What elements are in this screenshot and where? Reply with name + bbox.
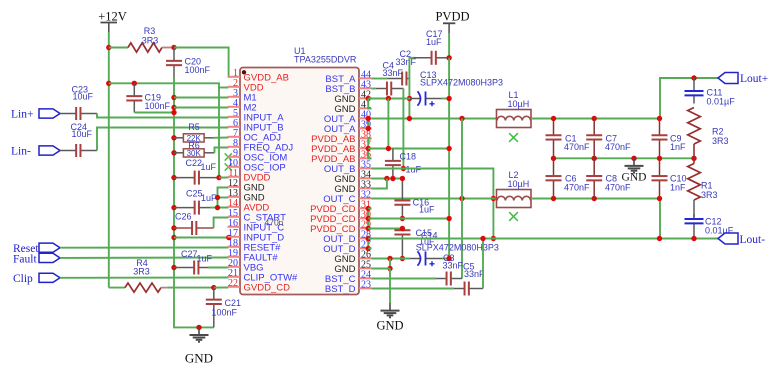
node rail/C13 xyxy=(446,96,451,101)
node bot rail C6 xyxy=(551,196,556,201)
capacitor C19 xyxy=(133,83,135,96)
wire A-C tie xyxy=(461,119,463,279)
no-connect X pin9 OSC_IOM xyxy=(225,153,232,160)
svg-text:C21: C21 xyxy=(225,298,242,308)
capacitor C6 xyxy=(553,158,555,176)
wire pins38-36 tie xyxy=(368,138,371,140)
wire Clip to CLIP_OTW# xyxy=(60,277,229,279)
svg-text:TPA3255DDVR: TPA3255DDVR xyxy=(294,55,357,65)
node C16/PVDD_CD xyxy=(400,216,405,221)
wire C19 to GND bus xyxy=(134,112,174,114)
wire Fault to FAULT# xyxy=(60,257,229,259)
resistor R2 xyxy=(688,108,701,145)
node PVDD top xyxy=(446,55,451,60)
pin 36 PVDD_AB xyxy=(359,157,372,159)
node GND bus R5 xyxy=(171,135,176,140)
wire +12V stem xyxy=(108,32,110,48)
node DVDD junction xyxy=(216,175,221,180)
pin 37 PVDD_AB xyxy=(359,147,372,149)
node VDD/C19 junction xyxy=(132,81,137,86)
node pin28 xyxy=(366,236,371,241)
pin 9 OSC_IOM xyxy=(228,156,241,158)
wire pins28-27 tie xyxy=(367,239,369,249)
pin 5 INPUT_A xyxy=(228,116,241,118)
node top rail C7 xyxy=(592,116,597,121)
svg-text:0.01µF: 0.01µF xyxy=(707,97,736,107)
wire v38-36 xyxy=(368,139,371,159)
pin 26 GND xyxy=(359,257,372,259)
capacitor C3 xyxy=(436,278,447,280)
svg-text:Fault: Fault xyxy=(13,253,37,265)
node rail/PVDD_CD xyxy=(446,216,451,221)
node R3/C20 junction xyxy=(171,45,176,50)
wire row29 ext xyxy=(368,228,402,230)
svg-text:SLPX472M080H3P3: SLPX472M080H3P3 xyxy=(420,78,503,88)
capacitor C11 xyxy=(693,78,695,91)
svg-text:10uF: 10uF xyxy=(72,129,93,139)
wire OUT_D long row xyxy=(368,238,718,240)
pin 14 AVDD xyxy=(228,206,241,208)
node C15/PVDD_CD xyxy=(400,226,405,231)
resistor R1 xyxy=(693,158,695,163)
node OUT_A/C2 xyxy=(407,116,412,121)
svg-text:R5: R5 xyxy=(188,122,200,132)
svg-text:23: 23 xyxy=(361,279,371,290)
wire s25 xyxy=(372,268,391,270)
wire PVDD stem xyxy=(448,33,450,58)
node C15/GND26 xyxy=(400,256,405,261)
svg-text:GND: GND xyxy=(376,319,403,333)
svg-text:470nF: 470nF xyxy=(564,182,590,192)
wire pins26-25 tie xyxy=(389,259,391,269)
wire R5 to OC_ADJ xyxy=(213,137,229,139)
svg-text:470n: 470n xyxy=(265,218,284,228)
pin 16 INPUT_C xyxy=(228,226,241,228)
svg-text:GVDD_CD: GVDD_CD xyxy=(244,283,291,294)
wire pin13 GND row xyxy=(218,197,229,199)
wire VDD row xyxy=(109,83,219,87)
wire VDD to pin2 xyxy=(219,87,229,89)
resistor R6 xyxy=(174,152,183,154)
pin 22 GVDD_CD xyxy=(228,286,241,288)
capacitor C20 xyxy=(173,48,175,61)
wire +12V rail xyxy=(108,48,110,288)
wire PVDD_AB row xyxy=(368,148,449,150)
wire GND42 row xyxy=(368,98,410,100)
wire Reset to RESET# xyxy=(60,247,229,249)
node GND bottom-left xyxy=(196,325,201,330)
svg-text:1nF: 1nF xyxy=(670,182,686,192)
node GND26 tie xyxy=(387,256,392,261)
pin 42 GND xyxy=(359,97,372,99)
wire C13 to rail xyxy=(441,98,449,100)
svg-text:GND: GND xyxy=(185,351,213,366)
capacitor C25 xyxy=(174,207,195,209)
node bot rail C8 xyxy=(592,196,597,201)
capacitor C26 xyxy=(174,227,192,229)
ground bottom-center xyxy=(389,303,391,310)
pin 30 PVDD_CD xyxy=(359,217,372,219)
wire M1 row xyxy=(174,97,229,99)
wire BST_D row xyxy=(372,288,455,290)
node pin37 xyxy=(366,146,371,151)
svg-text:Lout-: Lout- xyxy=(740,234,766,246)
node pin31 xyxy=(366,206,371,211)
node pin25 xyxy=(387,266,392,271)
svg-text:C27: C27 xyxy=(181,249,198,259)
svg-text:1nF: 1nF xyxy=(670,142,686,152)
capacitor C2 xyxy=(387,78,402,80)
wire BST_C row xyxy=(372,278,437,280)
capacitor C14 xyxy=(410,258,421,260)
wire R4 left lead xyxy=(109,287,125,289)
svg-text:1uF: 1uF xyxy=(201,193,217,203)
node GND bus M1 xyxy=(171,95,176,100)
node OUT_B/OUT_D xyxy=(491,236,496,241)
node lout- rail xyxy=(657,236,662,241)
capacitor C1 xyxy=(553,119,555,136)
svg-text:33nF: 33nF xyxy=(464,269,485,279)
ground bottom-left xyxy=(198,327,200,334)
capacitor C23 xyxy=(60,113,76,115)
svg-text:Lin-: Lin- xyxy=(11,146,31,158)
wire pins31-29 tie xyxy=(367,209,369,229)
pin 41 GND xyxy=(359,107,372,109)
wire R3 left lead xyxy=(109,47,128,49)
wire PVDD_CD row xyxy=(368,218,449,220)
node C2/GND42 xyxy=(407,96,412,101)
wire PVDD-AB riser xyxy=(387,99,389,149)
wire PVDD rail xyxy=(448,58,450,259)
wire BST_B row xyxy=(372,88,376,90)
node pin12/13 junction xyxy=(215,195,220,200)
port Clip xyxy=(39,273,60,282)
pin 28 OUT_D xyxy=(359,237,372,239)
op-amp U1 body xyxy=(240,68,359,295)
port Fault xyxy=(39,253,60,262)
svg-text:1uF: 1uF xyxy=(426,37,442,47)
node mid rail R xyxy=(691,156,696,161)
node GVDD_CD/C21 xyxy=(211,285,216,290)
capacitor C22 xyxy=(174,177,195,179)
svg-text:BST_D: BST_D xyxy=(325,284,356,295)
svg-text:1uF: 1uF xyxy=(419,205,435,215)
svg-text:100nF: 100nF xyxy=(212,308,238,318)
node +12V/VDD junction xyxy=(106,81,111,86)
capacitor C9 xyxy=(659,119,661,136)
wire C4 down to OUT_B xyxy=(402,89,404,169)
capacitor C5 xyxy=(454,288,465,290)
wire R4 to GVDD_CD xyxy=(168,287,214,289)
wire GND bus xyxy=(174,78,214,327)
pin 18 RESET# xyxy=(228,246,241,248)
wire VDD-DVDD vertical xyxy=(218,88,220,178)
wire to pin22 xyxy=(214,287,229,289)
wire OUT_B row xyxy=(372,169,494,239)
wire pins34-33 tie xyxy=(372,179,387,189)
pin 4 M2 xyxy=(228,106,241,108)
svg-text:1uF: 1uF xyxy=(201,162,217,172)
node GND42 b xyxy=(386,96,391,101)
node bot rail C10 xyxy=(657,196,662,201)
node GND bus C27 xyxy=(171,265,176,270)
node C4/OUT_B xyxy=(401,166,406,171)
node GND34 tie xyxy=(384,176,389,181)
node pin39 xyxy=(366,126,371,131)
no-connect X L1 xyxy=(509,133,518,142)
capacitor C10 xyxy=(659,158,661,176)
pin 2 VDD xyxy=(228,86,241,88)
wire M2 row xyxy=(174,107,229,109)
wire C27 to VBG xyxy=(208,267,229,269)
pin 39 OUT_A xyxy=(359,127,372,129)
node C16/GND34 xyxy=(400,176,405,181)
svg-text:R6: R6 xyxy=(188,140,200,150)
node mid rail C1 xyxy=(551,156,556,161)
wire bottom rail xyxy=(531,199,660,239)
svg-text:10µH: 10µH xyxy=(508,179,530,189)
node mid rail C7 xyxy=(592,156,597,161)
ground mid filter xyxy=(633,158,635,165)
capacitor C16 xyxy=(401,179,403,201)
node Lout+ / C11 xyxy=(691,75,696,80)
svg-text:22: 22 xyxy=(228,278,238,289)
svg-text:100nF: 100nF xyxy=(185,65,211,75)
wire GVDD_AB feed xyxy=(174,48,229,78)
capacitor C27 xyxy=(174,267,194,269)
wire R6 to FREQ_ADJ xyxy=(215,148,229,153)
svg-text:Lin+: Lin+ xyxy=(11,109,33,121)
no-connect X pin10 OSC_IOP xyxy=(225,163,232,170)
port Lin- xyxy=(39,146,60,155)
node mid rail gnd xyxy=(631,156,636,161)
node pin40 xyxy=(366,116,371,121)
capacitor C21 xyxy=(213,288,215,300)
svg-text:470nF: 470nF xyxy=(605,182,631,192)
pin 20 VBG xyxy=(228,266,241,268)
node GND bus C22 xyxy=(171,175,176,180)
node riser/PVDD_AB xyxy=(386,146,391,151)
node Lout- / C12 xyxy=(691,236,696,241)
pin 12 GND xyxy=(228,186,241,188)
pin 35 OUT_B xyxy=(359,167,372,169)
wire mid GND rail xyxy=(554,157,695,159)
wire C26 to C_START xyxy=(214,218,229,229)
wire C5 up to OUT_D xyxy=(482,239,484,289)
no-connect X L2 xyxy=(509,212,518,221)
node INPUT_D pin xyxy=(226,235,231,240)
inductor L2 xyxy=(497,190,532,208)
resistor R4 xyxy=(125,283,161,292)
node GND bus C26 xyxy=(171,225,176,230)
pin 15 C_START xyxy=(228,216,241,218)
pin 11 DVDD xyxy=(228,176,241,178)
pin 31 PVDD_CD xyxy=(359,207,372,209)
wire AVDD row xyxy=(210,207,229,209)
pin 44 BST_A xyxy=(359,77,372,79)
wire GND34 row xyxy=(372,178,403,180)
pin 3 M1 xyxy=(228,96,241,98)
capacitor C12 xyxy=(693,214,695,219)
pin 29 PVDD_CD xyxy=(359,227,372,229)
capacitor C8 xyxy=(593,158,595,176)
pin 21 CLIP_OTW# xyxy=(228,276,241,278)
wire Lin- to INPUT_B xyxy=(97,128,229,151)
wire s27 xyxy=(368,248,371,250)
svg-text:Lout+: Lout+ xyxy=(740,73,768,85)
node GND bus C25 xyxy=(171,205,176,210)
node OUT_A tieAC xyxy=(459,116,464,121)
svg-text:R1: R1 xyxy=(701,181,713,191)
pin 25 GND xyxy=(359,267,372,269)
svg-text:SLPX472M080H3P3: SLPX472M080H3P3 xyxy=(416,243,499,253)
svg-text:10µH: 10µH xyxy=(508,99,530,109)
svg-text:3R3: 3R3 xyxy=(133,266,150,276)
port Lout- xyxy=(718,233,738,244)
node rail/C14 xyxy=(446,256,451,261)
PVDD supply symbol xyxy=(443,22,455,24)
svg-text:10uF: 10uF xyxy=(73,92,94,102)
wire pins42-41 tie xyxy=(368,99,371,109)
wire Lin+ to INPUT_A xyxy=(97,114,229,118)
node pin27 xyxy=(366,246,371,251)
pin 1 GVDD_AB xyxy=(228,76,241,78)
pin 23 BST_D xyxy=(359,287,372,289)
node top rail C9 xyxy=(657,116,662,121)
wire GND stem xyxy=(389,269,391,304)
wire DVDD to pin11 xyxy=(219,177,229,179)
wire s29 xyxy=(368,228,371,230)
capacitor C24 xyxy=(60,150,76,152)
capacitor C15 xyxy=(401,229,403,231)
wire BST_A row xyxy=(372,78,387,80)
pin 8 FREQ_ADJ xyxy=(228,146,241,148)
svg-text:3R3: 3R3 xyxy=(142,36,159,46)
pin 43 BST_B xyxy=(359,87,372,89)
node pin29 xyxy=(366,226,371,231)
node OUT_B/OUT_C xyxy=(491,196,496,201)
node C5/OUT_D xyxy=(480,236,485,241)
svg-text:33nF: 33nF xyxy=(383,68,404,78)
pin 24 BST_C xyxy=(359,277,372,279)
wire GND26 row xyxy=(372,258,411,260)
svg-text:100nF: 100nF xyxy=(145,101,171,111)
pin 7 OC_ADJ xyxy=(228,136,241,138)
resistor R5 xyxy=(174,137,183,139)
pin 10 OSC_IOP xyxy=(228,166,241,168)
capacitor C7 xyxy=(593,119,595,136)
node GND bus C19 xyxy=(171,110,176,115)
node pin42 xyxy=(366,96,371,101)
node GND bus INPUT_D xyxy=(171,235,176,240)
svg-text:+12V: +12V xyxy=(98,10,127,24)
wire pin12 GND xyxy=(218,188,229,208)
pin 40 OUT_A xyxy=(359,117,372,119)
wire OUT_A row xyxy=(372,118,497,120)
pin 33 GND xyxy=(359,187,372,189)
svg-text:3R3: 3R3 xyxy=(701,190,718,200)
node GND bus M2 xyxy=(171,105,176,110)
wire top rail xyxy=(531,78,718,119)
wire s31 xyxy=(368,208,371,210)
pin 13 GND xyxy=(228,196,241,198)
port Reset xyxy=(39,243,60,252)
svg-text:1uF: 1uF xyxy=(197,253,213,263)
svg-text:PVDD: PVDD xyxy=(435,9,469,23)
node +12V/R3 junction xyxy=(106,45,111,50)
svg-text:C26: C26 xyxy=(175,212,192,222)
node OUT_C tieAC xyxy=(459,196,464,201)
inductor L1 xyxy=(497,110,532,128)
svg-text:R3: R3 xyxy=(144,26,156,36)
wire C2 down xyxy=(408,79,410,119)
svg-text:1uF: 1uF xyxy=(406,165,422,175)
node mid rail C9 xyxy=(657,156,662,161)
svg-text:470nF: 470nF xyxy=(605,142,631,152)
node pin30 xyxy=(366,216,371,221)
svg-text:33nF: 33nF xyxy=(443,261,464,271)
wire INPUT_D row xyxy=(174,237,229,239)
capacitor C17 xyxy=(414,57,432,59)
node top rail C1 xyxy=(551,116,556,121)
port Lin+ xyxy=(39,109,60,118)
pin 19 FAULT# xyxy=(228,256,241,258)
svg-text:GND: GND xyxy=(622,172,647,184)
resistor R3 xyxy=(128,43,162,52)
pin 27 OUT_D xyxy=(359,247,372,249)
svg-text:Clip: Clip xyxy=(13,273,33,285)
capacitor C13 xyxy=(410,98,421,100)
pin 38 PVDD_AB xyxy=(359,137,372,139)
svg-text:30K: 30K xyxy=(187,149,202,158)
wire C14 to rail xyxy=(442,258,449,260)
node rail/PVDD_AB xyxy=(446,146,451,151)
node GND bus R6 xyxy=(171,150,176,155)
wire pins40-39 tie xyxy=(368,119,371,129)
pin 17 INPUT_D xyxy=(228,236,241,238)
wire to C17 xyxy=(409,58,416,79)
svg-text:3R3: 3R3 xyxy=(712,136,729,146)
node C18/GND34 xyxy=(390,176,395,181)
port Lout+ xyxy=(718,73,738,84)
svg-text:470nF: 470nF xyxy=(564,142,590,152)
pin 34 GND xyxy=(359,177,372,179)
wire OUT_C row xyxy=(372,198,497,200)
svg-text:C18: C18 xyxy=(400,152,417,162)
pin 6 INPUT_B xyxy=(228,126,241,128)
node AVDD junction xyxy=(215,205,220,210)
+12V supply symbol xyxy=(101,22,118,24)
pin 32 OUT_C xyxy=(359,197,372,199)
capacitor C18 xyxy=(392,149,394,161)
capacitor C4 xyxy=(376,88,387,90)
